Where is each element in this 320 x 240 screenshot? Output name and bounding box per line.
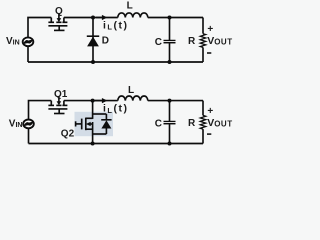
- label - (bottom VOUT minus): [207, 133, 211, 135]
- svg-text:iL(t): iL(t): [103, 20, 129, 32]
- svg-text:+: +: [207, 106, 213, 117]
- wire right rail lower: [202, 47, 204, 62]
- svg-text:VOUT: VOUT: [207, 117, 232, 129]
- svg-text:+: +: [207, 24, 213, 35]
- svg-text:C: C: [155, 118, 162, 129]
- svg-text:R: R: [188, 36, 196, 47]
- diode D (freewheeling, top circuit): [87, 18, 99, 63]
- svg-text:Q: Q: [55, 6, 63, 17]
- node Q2-bottom dot (bottom): [91, 142, 95, 146]
- inductor L (top): [118, 13, 148, 18]
- node capacitor-top dot (bottom): [168, 99, 172, 103]
- wire right rail upper: [202, 18, 204, 34]
- node switch-node dot (top): [91, 16, 95, 20]
- node capacitor-bottom dot (top): [168, 60, 172, 64]
- capacitor C (top): [164, 18, 176, 63]
- wire top rail middle segment (Q1 to inductor, bottom circuit): [64, 100, 118, 102]
- svg-text:VOUT: VOUT: [207, 35, 232, 47]
- diode body diode of Q2: [101, 114, 111, 134]
- wire top rail left segment: [28, 18, 51, 63]
- transistor Q (top high-side switch): [48, 13, 67, 30]
- svg-text:L: L: [128, 85, 134, 96]
- svg-text:C: C: [155, 37, 162, 48]
- voltage source VIN (bottom): [23, 120, 34, 129]
- transistor Q1 (bottom high-side switch): [48, 97, 67, 114]
- inductor L (bottom): [118, 96, 148, 101]
- label - (top VOUT minus): [207, 52, 211, 54]
- wire Q2 source to bottom rail: [92, 122, 94, 144]
- svg-text:iL(t): iL(t): [103, 103, 129, 115]
- voltage source VIN (top): [23, 37, 34, 46]
- node diode-bottom dot (top): [91, 60, 95, 64]
- svg-text:Q1: Q1: [54, 89, 68, 100]
- svg-text:L: L: [127, 1, 133, 12]
- resistor R (top load): [200, 34, 205, 48]
- wire Q2 inner bottom connector: [93, 133, 107, 135]
- svg-text:Q2: Q2: [61, 129, 75, 140]
- wire right rail upper (bottom circuit): [202, 101, 204, 116]
- svg-text:D: D: [102, 36, 109, 47]
- node switch-node dot (bottom): [91, 99, 95, 103]
- wire top rail left segment (bottom circuit): [29, 101, 52, 144]
- highlight box around Q2: [75, 112, 114, 136]
- wire bottom rail (bottom circuit): [29, 143, 204, 145]
- node capacitor-bottom dot (bottom): [168, 142, 172, 146]
- node capacitor-top dot (top): [168, 16, 172, 20]
- transistor Q2 (synchronous MOSFET): [76, 118, 93, 131]
- current arrow iL (top): [96, 15, 107, 20]
- wire top rail middle segment (Q right lead to inductor): [64, 17, 118, 19]
- current arrow iL (bottom): [94, 98, 107, 103]
- capacitor C (bottom): [164, 101, 176, 144]
- wire Q2 inner top connector: [93, 113, 107, 115]
- wire bottom rail: [28, 61, 203, 63]
- wire switch node to Q2 drain: [92, 101, 94, 119]
- wire top rail right segment (bottom circuit): [148, 100, 203, 102]
- wire right rail lower (bottom circuit): [202, 129, 204, 143]
- wire top rail right segment (inductor to right corner): [148, 17, 203, 19]
- svg-text:R: R: [188, 118, 196, 129]
- resistor R (bottom load): [200, 115, 205, 129]
